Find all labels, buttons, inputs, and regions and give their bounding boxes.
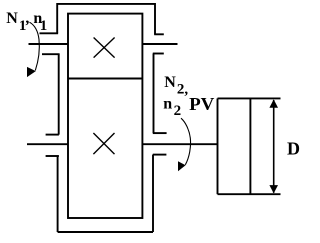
pulley drum right face	[249, 98, 251, 194]
bearing tick right of shaft 1 upper	[154, 33, 164, 35]
bearing tick left of shaft 1 upper	[40, 32, 59, 34]
bearing tick left of shaft 2 upper	[46, 134, 59, 136]
pulley top edge with extension line	[218, 97, 281, 99]
housing right wall middle segment	[153, 54, 155, 134]
svg-text:N1, n1: N1, n1	[6, 10, 47, 34]
rotation arrow 2 head	[178, 161, 186, 171]
housing top wall	[57, 3, 155, 5]
gear G2 cross stroke B	[93, 133, 114, 154]
bearing tick left of shaft 1 lower	[42, 53, 60, 55]
dimension D line	[273, 100, 275, 193]
housing bottom wall	[58, 231, 153, 233]
dimension D bottom arrowhead	[269, 185, 278, 193]
shaft 2 left segment	[27, 143, 68, 145]
housing right wall upper segment	[154, 3, 156, 35]
casing divider line	[68, 78, 142, 80]
housing right wall lower segment	[152, 155, 154, 232]
shaft 2 right segment	[142, 143, 217, 145]
shaft 1 right segment	[142, 43, 177, 45]
rotation arrow 1 head	[27, 67, 36, 77]
housing left wall lower segment	[57, 156, 59, 232]
bearing tick right of shaft 1 lower	[153, 53, 164, 55]
svg-text:PV: PV	[189, 94, 214, 114]
gear G2 cross stroke A	[93, 133, 114, 154]
housing left wall middle segment	[58, 54, 60, 134]
gear G1 cross stroke A	[94, 38, 115, 58]
svg-text:D: D	[287, 139, 300, 159]
shaft 1 left segment	[29, 43, 69, 45]
pulley drum left face	[217, 98, 219, 194]
bearing tick left of shaft 2 lower	[46, 155, 59, 157]
gearbox inner casing rectangle	[68, 14, 142, 218]
gear G1 cross stroke B	[94, 38, 115, 58]
rotation arrow 2 curve	[181, 118, 191, 165]
rotation arrow 1 curve	[30, 22, 40, 70]
bearing tick right of shaft 2 upper	[153, 132, 167, 134]
housing left wall upper segment	[56, 3, 58, 33]
bearing tick right of shaft 2 lower	[153, 154, 167, 156]
svg-text:n2: n2	[163, 95, 181, 119]
pulley bottom edge with extension line	[218, 193, 281, 195]
svg-text:N2,: N2,	[164, 74, 188, 98]
dimension D top arrowhead	[269, 99, 278, 107]
